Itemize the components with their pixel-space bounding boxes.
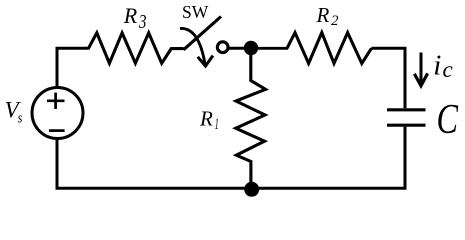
capacitor C top plate <box>387 108 426 111</box>
wire: bottom-left <box>57 139 251 188</box>
capacitor C bottom plate <box>387 124 426 127</box>
svg-text:3: 3 <box>138 11 146 33</box>
svg-text:R: R <box>316 3 330 27</box>
svg-text:C: C <box>437 97 459 143</box>
switch SW arrowhead <box>198 56 213 66</box>
Vs plus sign <box>47 99 65 102</box>
svg-text:i: i <box>433 50 441 82</box>
current arrow ic <box>420 53 423 85</box>
resistor R1 <box>236 53 266 182</box>
node: top junction dot <box>244 41 258 55</box>
voltage source Vs <box>32 88 83 139</box>
svg-text:R: R <box>123 3 138 28</box>
svg-text:1: 1 <box>215 116 219 133</box>
wire: contact to node <box>228 47 247 50</box>
svg-text:c: c <box>443 57 453 82</box>
resistor R2 <box>287 33 372 64</box>
wire: capacitor to bottom-right corner <box>251 127 405 189</box>
wire: R2 to top-right corner, down to capacitor <box>372 48 406 108</box>
switch contact terminal (open circle) <box>217 42 228 53</box>
Vs minus sign <box>49 129 65 132</box>
svg-text:s: s <box>18 110 23 126</box>
switch SW motion arc <box>180 28 205 63</box>
node: bottom junction dot <box>244 182 259 197</box>
svg-text:2: 2 <box>331 13 339 29</box>
wire: top-left from source to R3 <box>57 48 90 87</box>
wire: node to R2 <box>250 47 288 50</box>
svg-text:R: R <box>199 106 213 130</box>
svg-text:SW: SW <box>182 2 208 22</box>
switch SW blade <box>184 17 222 50</box>
resistor R3 <box>89 33 184 63</box>
